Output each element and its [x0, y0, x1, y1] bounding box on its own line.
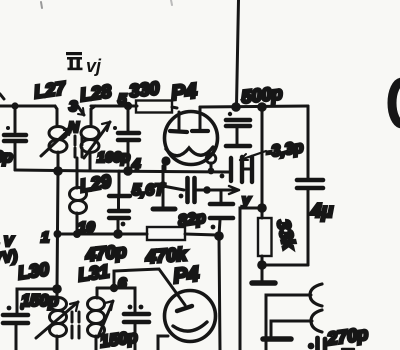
wire vertical x57 [57, 171, 58, 289]
ground below 33k [252, 265, 275, 283]
svg-text:150p: 150p [21, 292, 59, 310]
wire vertical x220 [219, 236, 220, 350]
svg-text:10: 10 [78, 219, 95, 236]
tube V1 envelope [165, 112, 218, 165]
wire top-left corner stub [0, 94, 4, 99]
tube V1 left pin [161, 156, 170, 171]
wire branch to x240 [240, 208, 262, 350]
svg-text:L28: L28 [79, 81, 113, 105]
node 500p junction [231, 102, 241, 112]
wire x163 cathode branch [162, 166, 165, 207]
svg-text:330: 330 [128, 78, 160, 101]
svg-text:8p: 8p [0, 149, 13, 166]
svg-text:L31: L31 [77, 261, 111, 285]
faint top ticks [41, 2, 42, 8]
label 3.3p with arrow [240, 139, 305, 161]
node bus junction [53, 166, 63, 176]
wire anode bus y=107 [200, 106, 308, 107]
node pin5 junction [124, 102, 132, 110]
capacitor 3.3p trimmer [220, 157, 252, 182]
capacitor 100p [118, 106, 139, 171]
svg-text:P4: P4 [172, 262, 200, 288]
capacitor 5.6 [163, 178, 207, 202]
wire arrow through L28 [84, 122, 117, 158]
capacitor 470p [109, 171, 130, 239]
node junction [159, 181, 167, 189]
wire arrow through L30 [36, 302, 78, 338]
wire vertical from top [237, 0, 239, 106]
inductor L27 [49, 106, 67, 171]
resistor 470k [147, 227, 185, 240]
wire output arrow y [203, 186, 239, 194]
tube V1 heater wave [166, 147, 213, 156]
svg-text:y: y [241, 192, 251, 209]
node bus junction 100p [123, 166, 133, 176]
node 33k top junction [257, 203, 267, 213]
svg-text:1: 1 [41, 229, 49, 246]
node top-left junction [11, 102, 18, 109]
tube V2 envelope [165, 291, 216, 342]
ground fork2 [263, 336, 291, 342]
wire grid fork 1 [266, 284, 322, 350]
tube V1 right pin [206, 154, 216, 175]
wire bus to resistor [91, 105, 137, 108]
capacitor 150p left [3, 289, 57, 350]
inductor L28 [81, 106, 99, 170]
wire arrow through L27 [41, 127, 72, 156]
label II vj [66, 52, 102, 76]
wire bus y=234 [58, 233, 147, 236]
resistor 33k [258, 218, 272, 256]
svg-text:5: 5 [118, 91, 127, 108]
right edge blob [392, 82, 400, 124]
capacitor 150p right [114, 288, 149, 350]
tube V1 right electrode [192, 107, 208, 131]
tube V2 anode bar [177, 306, 192, 311]
inductor L30 [50, 289, 67, 350]
node right junction [257, 102, 267, 112]
svg-text:5,6T: 5,6T [132, 182, 165, 199]
capacitor 82p [210, 190, 233, 235]
svg-text:L30: L30 [17, 259, 51, 283]
tube V2 anode wire diagonal [114, 269, 185, 305]
svg-text:, V: , V [0, 233, 15, 249]
node 33k bottom junction [257, 260, 267, 270]
capacitor 8p [4, 106, 26, 170]
node L30 junction [52, 284, 62, 294]
resistor 330 [136, 101, 172, 113]
wire middle bus y=171 [15, 170, 229, 172]
tube V2 bottom stub [158, 336, 168, 350]
svg-text:100p: 100p [97, 150, 130, 166]
node pin1 junction [54, 230, 62, 238]
inductor L29 [70, 158, 87, 238]
core dashes [75, 136, 82, 157]
wire to 4u [262, 264, 308, 267]
inductor L31 [88, 288, 115, 350]
wire resistor to tube [172, 107, 177, 108]
faint mark under 270p [342, 348, 354, 350]
capacitor 500p stack [226, 112, 250, 146]
ground [153, 207, 175, 212]
capacitor 4u [297, 106, 323, 265]
tube V2 cathode arc [173, 322, 207, 331]
svg-text:500p: 500p [240, 83, 283, 107]
wire grid fork 2 [271, 310, 322, 336]
svg-text:N: N [68, 119, 80, 136]
wire arrow through L31 [98, 301, 113, 337]
core dashes bottom [72, 312, 79, 338]
wire top bus left [0, 105, 55, 108]
svg-text:vj: vj [86, 56, 102, 76]
svg-text:4μ: 4μ [310, 201, 334, 222]
node 82p bottom junction [214, 231, 224, 241]
wire pin3 arrow [77, 105, 84, 115]
svg-text:P4: P4 [170, 79, 198, 105]
capacitor 270p [308, 338, 325, 350]
node pin6 junction [110, 284, 118, 292]
wire x262 vertical [261, 107, 264, 218]
tube V1 left electrode [170, 112, 187, 132]
